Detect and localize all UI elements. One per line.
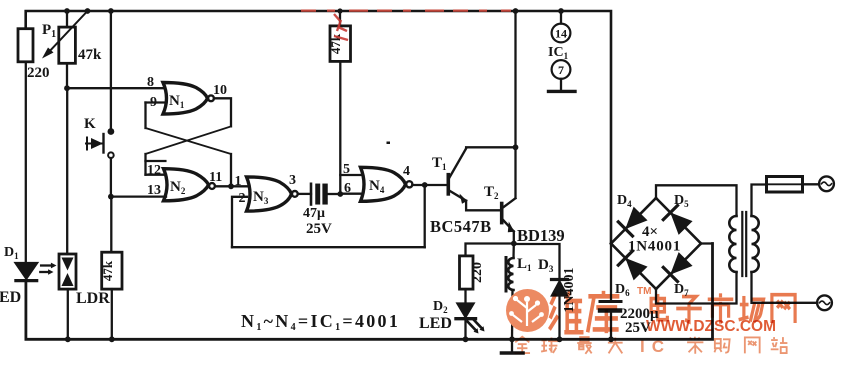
watermark bottom row <box>514 337 787 354</box>
svg-text:WWW.DZSC.COM: WWW.DZSC.COM <box>646 318 776 335</box>
capacitor 2200u 25V <box>600 244 621 340</box>
wire N1 pin9 from latch left vertical <box>146 101 165 103</box>
svg-text:LED: LED <box>419 315 452 332</box>
svg-text:4: 4 <box>403 164 410 179</box>
svg-text:TM: TM <box>637 286 651 297</box>
wire capacitor to pin6 junction <box>327 193 340 195</box>
LED D2 <box>456 304 485 334</box>
wire bridge right vertex stub <box>701 242 713 244</box>
junction D2 on ground rail <box>463 336 469 342</box>
wire N3 out to capacitor <box>298 193 311 195</box>
diode D5 <box>663 206 690 233</box>
watermark red scribble on 47k <box>334 14 348 40</box>
wire LDR bottom to rail <box>67 289 69 339</box>
svg-text:7: 7 <box>558 63 564 77</box>
watermark red dashes on rail <box>301 10 511 12</box>
junction P1 top on rail <box>64 8 70 14</box>
junction collector rail on +V <box>513 8 519 14</box>
fuse <box>767 177 803 193</box>
transistor T2 BD139 <box>502 198 516 232</box>
bridge rectifier diamond <box>611 198 701 289</box>
junction L1 on ground rail <box>509 336 515 342</box>
wire pot bottom to junction <box>66 63 68 88</box>
junction T1 T2 collectors <box>513 144 519 150</box>
svg-text:13: 13 <box>147 183 161 198</box>
wire bottom ground rail <box>26 244 713 340</box>
wire pin12 box bottom into gate <box>146 174 167 176</box>
svg-text:6: 6 <box>344 181 351 196</box>
wire 47k bottom to rail <box>111 289 113 339</box>
junction 2200u on ground rail <box>608 336 614 342</box>
svg-text:220: 220 <box>470 262 485 283</box>
junction K on rail <box>108 8 114 14</box>
diode D6 <box>618 251 645 278</box>
transformer core <box>742 212 746 276</box>
LDR <box>59 254 76 289</box>
transformer secondary winding <box>729 216 736 272</box>
junction K to pin13 and 47k <box>108 194 114 200</box>
svg-text:5: 5 <box>343 162 350 177</box>
watermark logo circle <box>506 289 549 332</box>
wire fuse to AC terminal 1 <box>803 183 820 185</box>
wire primary bottom to AC terminal 2 <box>752 272 818 303</box>
wire D2 to rail <box>464 319 466 340</box>
resistor 47k (top middle) <box>330 11 351 61</box>
scan speck <box>387 142 391 145</box>
wire primary top to fuse <box>752 185 767 217</box>
NOR gate N4 <box>361 167 413 201</box>
NOR gate N1 <box>163 83 214 115</box>
wire latch left vertical (pin9 side) <box>144 103 146 129</box>
svg-text:47μ: 47μ <box>303 206 325 221</box>
wire vertical pot junction to LDR <box>66 88 68 254</box>
wire 220 bottom to D1 <box>25 62 27 263</box>
watermark wei-ku big chars <box>549 291 619 333</box>
svg-text:12: 12 <box>147 163 161 178</box>
wire N1 out10 to right <box>214 98 231 126</box>
AC source terminal 2 <box>817 295 832 310</box>
svg-text:2: 2 <box>239 191 246 206</box>
wire feedback bottom horizontal <box>232 246 425 248</box>
wire T1 emitter to T2 base <box>466 201 502 211</box>
junction T2 emitter node <box>511 241 517 247</box>
svg-text:47k: 47k <box>78 47 102 63</box>
wire bridge top vertex to transformer <box>656 185 737 216</box>
svg-text:220: 220 <box>27 65 50 81</box>
wire N4 pin6 <box>340 193 361 195</box>
svg-text:11: 11 <box>209 170 222 185</box>
wire 47k top down to N4 inputs <box>339 61 341 194</box>
wire latch diagonal N2out to N1 pin9 <box>146 128 232 154</box>
wire emitter junction left to 220 <box>466 244 514 256</box>
svg-text:ED: ED <box>0 289 21 306</box>
wire N3 pin2 feedback entry <box>232 197 247 247</box>
wire latch diagonal N1out to N2 pin12 <box>146 126 232 154</box>
diode D3 <box>552 280 568 296</box>
resistor 220 (left) <box>18 29 33 62</box>
junction 47k top on rail <box>337 8 342 13</box>
junction N4 out feedback <box>422 182 428 188</box>
svg-text:9: 9 <box>150 95 157 110</box>
NOR gate N2 <box>164 169 215 201</box>
junction 47k on ground rail <box>109 336 115 342</box>
wire feedback N4out down <box>424 185 426 247</box>
LED D1 <box>16 263 57 281</box>
diode D7 <box>663 254 690 281</box>
svg-text:IC: IC <box>640 337 671 356</box>
potentiometer P1 body <box>59 27 76 63</box>
wire T2 emitter down to junction <box>513 232 515 244</box>
svg-text:1: 1 <box>235 174 242 189</box>
wire N4 out to T1 base <box>412 184 448 186</box>
wire corner to N2 pin 13 <box>111 195 166 197</box>
wire latch left vertical (pin12 side) <box>144 154 146 175</box>
wire top +V rail <box>26 11 611 244</box>
NOR gate N3 <box>247 177 298 211</box>
svg-text:14: 14 <box>555 27 567 41</box>
relay coil L1 <box>506 244 514 340</box>
transformer primary winding <box>752 216 759 272</box>
wire N2 out11 to N3 pin1 <box>215 185 247 187</box>
junction D3 on ground rail <box>557 336 563 342</box>
wire bridge bottom vertex to transformer <box>656 272 737 304</box>
resistor 47k (left vertical) <box>102 252 122 289</box>
wire K bottom to corner junction <box>110 158 112 197</box>
svg-text:3: 3 <box>289 173 296 188</box>
transistor T1 BC547B <box>448 149 467 204</box>
wire T1 collector horizontal <box>466 146 515 148</box>
junction LDR on ground rail <box>65 336 71 342</box>
svg-text:N1~N4=IC1=4001: N1~N4=IC1=4001 <box>241 311 400 333</box>
svg-text:47k: 47k <box>100 260 115 281</box>
wire pin12 box top <box>146 160 166 162</box>
svg-text:25V: 25V <box>306 221 332 237</box>
AC source terminal 1 <box>819 176 834 191</box>
wire D3 to rail <box>558 296 560 340</box>
wire emitter junction right to D3 <box>514 244 560 279</box>
junction pot bottom node <box>64 85 70 91</box>
svg-text:10: 10 <box>213 83 227 98</box>
relay contact K <box>86 128 114 158</box>
svg-text:LDR: LDR <box>76 290 110 307</box>
svg-text:BC547B: BC547B <box>430 217 492 236</box>
junction IC1 pin14 on rail <box>558 8 564 14</box>
wire latch right vertical down to out11 junction <box>230 154 232 186</box>
svg-text:BD139: BD139 <box>517 226 565 245</box>
wire 220 to D2 <box>464 289 466 303</box>
resistor 220 (right vertical) <box>460 256 474 289</box>
wire N4 pin5 <box>340 174 361 176</box>
junction node A cap to N4 inputs <box>337 191 343 197</box>
wire pot top <box>66 11 68 27</box>
svg-text:1N4001: 1N4001 <box>628 239 681 255</box>
wire corner down to 47k <box>110 197 112 253</box>
junction N2 out to N1 pin9 <box>228 183 234 189</box>
IC1 power pins <box>549 11 576 91</box>
diode D4 <box>618 209 645 236</box>
wire pot junction to N1 pin 8 <box>67 87 163 89</box>
watermark dian-zi-shi-chang-wang <box>651 293 795 323</box>
svg-text:K: K <box>84 116 96 132</box>
potentiometer wiper arrow <box>42 11 88 59</box>
svg-text:8: 8 <box>147 75 154 90</box>
junction wiper on rail <box>85 8 91 14</box>
wire collector rail vertical <box>514 11 516 198</box>
capacitor C 47u 25V <box>311 184 327 205</box>
ground under L1 <box>502 339 524 353</box>
wire K from rail down to contact <box>110 11 112 130</box>
